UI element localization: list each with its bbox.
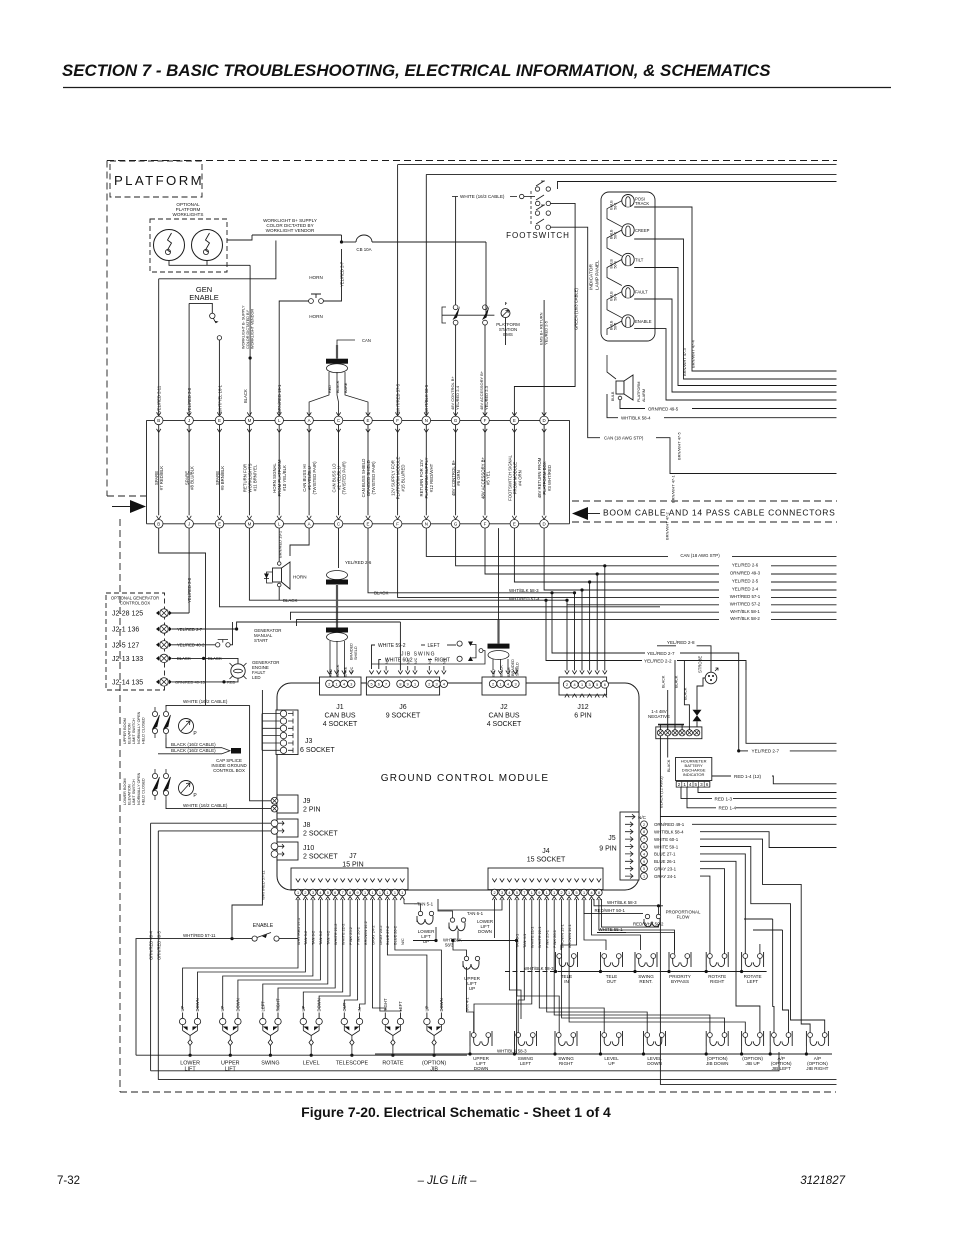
svg-text:CB 10A: CB 10A (356, 247, 371, 252)
wire J12-pin-597.2 (596, 574, 598, 671)
svg-text:BLACK: BLACK (374, 591, 388, 596)
svg-text:WORKLIGHT B- SUPPLY: WORKLIGHT B- SUPPLY (241, 305, 245, 349)
svg-text:#11 BRN/YEL: #11 BRN/YEL (252, 464, 257, 491)
wire ems-down (505, 318, 507, 345)
svg-text:ORN/RED 49-5: ORN/RED 49-5 (157, 930, 162, 960)
svg-text:J8: J8 (303, 822, 311, 829)
svg-text:5: 5 (596, 683, 598, 687)
svg-text:JIB RIGHT: JIB RIGHT (806, 1066, 828, 1071)
coil valve-LEVEL-DOWN (645, 1033, 650, 1038)
wire valve-OPTIONJIB DOWN-drop2 (705, 1046, 707, 1054)
svg-text:E: E (513, 418, 516, 423)
wire jib-left-feed2 (783, 930, 789, 1033)
svg-text:4: 4 (319, 891, 321, 895)
svg-text:UP: UP (469, 986, 475, 991)
wire trunk-col-9 (397, 425, 399, 516)
svg-text:#8 BLU/BLK: #8 BLU/BLK (190, 466, 195, 490)
svg-text:WHITE (16/3 CABLE): WHITE (16/3 CABLE) (460, 194, 505, 199)
wire bandC-bus (375, 1053, 832, 1055)
svg-text:YEL/RED 2-3: YEL/RED 2-3 (484, 385, 489, 410)
diode D1 (693, 710, 702, 716)
wire J7-fan-5 (263, 899, 328, 1010)
wire trunk-col-14 (543, 425, 545, 516)
switch generator-start-button (172, 644, 215, 646)
svg-text:1: 1 (568, 891, 570, 895)
wire lamp-feed-3 (607, 260, 622, 286)
svg-text:JIB UP: JIB UP (745, 1061, 759, 1066)
coil valve-AP-OPTION (808, 1033, 813, 1038)
svg-text:58/3: 58/3 (445, 943, 454, 948)
wire valve-TELEOUT-drop (600, 967, 602, 972)
svg-text:6: 6 (378, 682, 380, 686)
wire trunk-col-1 (158, 425, 160, 516)
wire valve-PRIORITYBYPASS-drop (668, 967, 670, 972)
svg-text:START: START (254, 638, 268, 643)
cable can-shield-j1 (338, 528, 340, 568)
wire col-E3-down (220, 528, 661, 607)
svg-text:1: 1 (531, 891, 533, 895)
svg-text:9 SOCKET: 9 SOCKET (386, 713, 421, 720)
wire j8-feed-1 (151, 822, 271, 824)
svg-text:(TWISTED PAIR): (TWISTED PAIR) (341, 461, 346, 495)
node generator-box (106, 593, 165, 690)
wire J4-fan-2 (438, 899, 502, 910)
wire footswitch-link (524, 196, 535, 198)
node boomcable-band-bottom (572, 521, 837, 523)
coil valve-SWING-RIGHT (556, 1033, 561, 1038)
diode horn-diode (267, 572, 273, 583)
wire bundle-wht-red-57-1 (719, 593, 771, 599)
svg-text:BRAIDED: BRAIDED (511, 659, 515, 676)
svg-text:ORN/RED 49-3: ORN/RED 49-3 (730, 571, 761, 576)
svg-text:J3: J3 (305, 738, 313, 745)
svg-text:BLACK: BLACK (684, 687, 688, 700)
svg-text:WHT/BLK 58-4: WHT/BLK 58-4 (654, 830, 684, 835)
wire black-cable-2 (158, 753, 222, 755)
svg-text:CAN (18 AWG STP): CAN (18 AWG STP) (604, 436, 644, 441)
svg-text:D: D (543, 418, 546, 423)
wire col9-tall (397, 165, 399, 416)
wire J4-fan-3 (509, 899, 521, 1019)
svg-text:6: 6 (604, 683, 606, 687)
wire redwht-50-2 (631, 924, 659, 927)
svg-text:9: 9 (357, 891, 359, 895)
svg-text:4 SOCKET: 4 SOCKET (487, 721, 522, 728)
wire ts3-up (674, 660, 676, 730)
svg-text:NORMALLY OPEN: NORMALLY OPEN (137, 772, 141, 805)
svg-text:TAN 6-1: TAN 6-1 (467, 911, 484, 916)
svg-text:9 PIN: 9 PIN (599, 846, 617, 853)
wire trunk-col-12 (484, 425, 486, 516)
wire col-N-down (426, 528, 836, 556)
wire header-rule (63, 87, 891, 89)
svg-text:A: A (308, 418, 311, 423)
switch 48v-accessory (483, 305, 488, 310)
svg-text:PLATFORM: PLATFORM (637, 382, 641, 402)
wire J7-fan-3 (223, 899, 313, 1010)
cable can-shield-j1-lower (326, 628, 348, 633)
svg-text:J2-14 135: J2-14 135 (112, 679, 143, 686)
node ems-switch (501, 309, 510, 318)
svg-text:GROUND CONTROL MODULE: GROUND CONTROL MODULE (381, 773, 550, 784)
svg-text:YEL/RED 2-8: YEL/RED 2-8 (187, 577, 192, 603)
wire strobe-black-down (684, 660, 689, 730)
svg-text:FAULT: FAULT (635, 290, 648, 295)
connector J12 (559, 677, 607, 695)
wire J6-white60-drop (379, 660, 381, 669)
svg-text:N/C: N/C (350, 666, 354, 673)
svg-text:15 PIN: 15 PIN (342, 862, 363, 869)
svg-text:WHITE 55-1: WHITE 55-1 (599, 927, 624, 932)
wire ts2-up (667, 690, 669, 730)
svg-text:RED: RED (329, 669, 333, 677)
wire top-line2 (426, 173, 836, 175)
svg-text:BULB: BULB (611, 391, 615, 401)
lamp worklight-1 (154, 230, 185, 261)
svg-text:YEL/RED 2-7: YEL/RED 2-7 (647, 651, 675, 656)
svg-text:BRN/RED 19-1: BRN/RED 19-1 (277, 530, 282, 558)
wire horn-cable-black (337, 372, 339, 416)
wire j2-28-wire (168, 612, 189, 614)
wire j2-bare (507, 659, 509, 670)
wire terminal-jumper (658, 724, 684, 726)
node connector-row2-13 (512, 516, 516, 520)
svg-text:J1: J1 (336, 704, 344, 711)
wire lamp-out-2 (634, 239, 836, 379)
node connector-row1-8 (366, 412, 370, 416)
svg-text:BRN/WHT 47-1: BRN/WHT 47-1 (671, 475, 676, 503)
svg-text:1: 1 (583, 891, 585, 895)
svg-text:EMS: EMS (503, 332, 513, 337)
svg-text:D: D (543, 521, 546, 526)
svg-text:9: 9 (643, 860, 645, 864)
wire col-B-down (159, 528, 206, 705)
svg-text:HORN: HORN (309, 314, 323, 319)
wire switch-bar (442, 314, 494, 316)
coil valve-ROTATE-RIGHT (708, 954, 713, 959)
svg-text:CONTROL BOX: CONTROL BOX (120, 601, 151, 606)
svg-text:LEFT: LEFT (747, 979, 758, 984)
gauge lower-boom-pressure (179, 781, 194, 796)
wire J7-fan-13 (387, 899, 427, 1010)
wire valve-SWINGRENT.-drop (634, 967, 636, 972)
svg-text:GREEN (16/3 CABLE): GREEN (16/3 CABLE) (573, 288, 578, 330)
wire col-F9-down (398, 528, 837, 597)
svg-text:N/C: N/C (638, 815, 647, 820)
svg-text:9: 9 (407, 682, 409, 686)
wire J3-pin-4 (262, 735, 280, 737)
wire valve-LEVELDOWN-drop2 (643, 1046, 645, 1054)
svg-text:RENT.: RENT. (639, 979, 652, 984)
svg-text:(TWISTED PAIR): (TWISTED PAIR) (312, 461, 317, 495)
svg-text:WHITE 59-1: WHITE 59-1 (654, 844, 679, 849)
wire valve-UPPERLIFT-drop2 (469, 1046, 471, 1054)
wire red-1-4-12 (712, 775, 731, 777)
svg-text:YEL/RED 2-2: YEL/RED 2-2 (644, 658, 672, 663)
svg-text:GRN/RED 40-13: GRN/RED 40-13 (175, 680, 206, 685)
svg-text:4: 4 (443, 682, 445, 686)
svg-text:UP: UP (608, 1061, 614, 1066)
svg-text:4: 4 (643, 852, 645, 856)
node connector-row2-14 (542, 516, 546, 520)
connector J5-pin-1 (625, 874, 633, 879)
wire red-1-4 (687, 787, 716, 808)
wire trunk-col-3 (219, 425, 221, 516)
node connector-row2-9 (395, 516, 399, 520)
wire trunk-col-8 (367, 425, 369, 516)
svg-text:RIGHT: RIGHT (435, 657, 451, 663)
svg-text:2: 2 (492, 682, 494, 686)
wire bundle-wht-red-57-2 (567, 604, 837, 606)
wire J12-pin-574.5 (574, 593, 576, 671)
svg-text:8: 8 (349, 891, 351, 895)
svg-text:2: 2 (304, 891, 306, 895)
svg-text:YEL/RED 40-2: YEL/RED 40-2 (177, 643, 205, 648)
svg-text:ENABLE: ENABLE (189, 293, 219, 302)
svg-text:F: F (396, 418, 399, 423)
svg-text:WORKLIGHTS: WORKLIGHTS (173, 212, 204, 217)
svg-text:F: F (484, 521, 487, 526)
node boomcable-band-top (572, 500, 837, 502)
node boomcable-arrow-right (572, 507, 588, 520)
svg-text:GRAY 23-1: GRAY 23-1 (654, 867, 677, 872)
svg-text:DOWN: DOWN (474, 1066, 489, 1071)
node connector-row1-7 (336, 412, 340, 416)
svg-text:1: 1 (401, 891, 403, 895)
wire jib-swing-out (471, 645, 477, 651)
node connector-row2-5 (277, 516, 281, 520)
wire lamp-feed-2 (607, 230, 622, 256)
wire black-12awg (660, 736, 836, 1084)
coil valve-OPTION-JIB UP (743, 1033, 748, 1038)
svg-text:RED/WHT 50-2: RED/WHT 50-2 (633, 922, 664, 927)
svg-text:3: 3 (514, 682, 516, 686)
svg-text:BLACK: BLACK (336, 380, 340, 393)
svg-text:2: 2 (428, 682, 430, 686)
wire col-E13-down (514, 528, 836, 582)
wire horn-bottom (278, 587, 280, 600)
svg-text:RED: RED (492, 669, 496, 677)
wire col-E8-down (368, 528, 575, 593)
svg-text:1: 1 (371, 891, 373, 895)
svg-text:M: M (248, 418, 252, 423)
svg-text:5: 5 (516, 891, 518, 895)
wire bottom-line2 (158, 1079, 836, 1081)
svg-text:NORMALLY OPEN: NORMALLY OPEN (137, 711, 141, 744)
svg-text:BRN/WHT 47-5: BRN/WHT 47-5 (677, 432, 682, 460)
wire j5-gray-24-1 (700, 876, 710, 954)
svg-text:5: 5 (576, 891, 578, 895)
svg-text:2 SOCKET: 2 SOCKET (303, 831, 338, 838)
svg-text:BYPASS: BYPASS (671, 979, 689, 984)
svg-text:1: 1 (546, 891, 548, 895)
svg-text:6 SOCKET: 6 SOCKET (300, 747, 335, 754)
svg-text:JIB DOWN: JIB DOWN (706, 1061, 728, 1066)
svg-text:YEL/RED 2-5: YEL/RED 2-5 (732, 579, 759, 584)
coil lower-lift-up (418, 911, 422, 915)
wire horn-cable-red (309, 372, 329, 416)
coil valve-TELE-OUT (602, 954, 607, 959)
svg-text:CAN BUS: CAN BUS (324, 713, 355, 720)
svg-text:WHT/RED 57-11: WHT/RED 57-11 (261, 870, 266, 900)
svg-text:J: J (188, 418, 190, 423)
switch lower-boom-limit-1 (152, 773, 157, 778)
svg-text:3: 3 (501, 891, 503, 895)
wire valve-APOPTION-drop2 (805, 1046, 807, 1054)
svg-text:1: 1 (394, 891, 396, 895)
svg-text:ELEVATION: ELEVATION (128, 784, 132, 805)
wire J3-pin-5 (262, 742, 280, 744)
wire yel-red-2-2 (546, 600, 642, 660)
svg-text:TRACK: TRACK (635, 201, 649, 206)
svg-text:OUT: OUT (607, 979, 617, 984)
wire trunk-col-4 (248, 425, 250, 516)
wire col-J-down (188, 528, 190, 613)
svg-text:YEL/RED 2-8: YEL/RED 2-8 (667, 640, 695, 645)
node platform-boundary-left-jog (107, 495, 146, 497)
svg-text:RED: RED (328, 385, 332, 393)
svg-text:#12 RED/WHT: #12 RED/WHT (429, 463, 434, 492)
node connector-row1-10 (424, 412, 428, 416)
svg-text:#6 GRN: #6 GRN (456, 470, 461, 486)
wire J7-fan-4 (238, 899, 321, 1010)
wire J3-pin-6 (262, 749, 280, 751)
lamp indicator-enable (622, 315, 634, 327)
svg-text:3: 3 (436, 682, 438, 686)
svg-text:15 SOCKET: 15 SOCKET (527, 857, 566, 864)
svg-text:IN: IN (564, 979, 569, 984)
node connector-row1-2 (187, 412, 191, 416)
wire j1-red (329, 641, 331, 680)
svg-text:SECTION 7 - BASIC TROUBLESHOOT: SECTION 7 - BASIC TROUBLESHOOTING, ELECT… (62, 61, 771, 80)
wire lamp-feed-1 (607, 201, 622, 227)
svg-text:1: 1 (553, 891, 555, 895)
switch horn-button (309, 299, 314, 304)
wire yel-red-2-7-line (738, 662, 740, 751)
coil valve-AP-OPTION (772, 1033, 777, 1038)
connector J5-pin-9 (625, 859, 633, 864)
wire col-M-down (249, 528, 567, 600)
wire j5-white-60-1 (700, 839, 810, 1033)
svg-text:1: 1 (386, 891, 388, 895)
svg-text:N: N (425, 418, 428, 423)
svg-text:LEFT: LEFT (520, 1061, 531, 1066)
svg-text:GRAY 24-1: GRAY 24-1 (654, 874, 677, 879)
wire J7-fan-1 (183, 899, 298, 1010)
svg-text:3: 3 (700, 782, 703, 787)
svg-text:CAN: CAN (362, 338, 371, 343)
wire col11 (455, 325, 457, 416)
node trunk-frame (147, 419, 570, 421)
svg-text:N/C: N/C (428, 657, 432, 664)
svg-text:#9 BRN/BLK: #9 BRN/BLK (220, 466, 225, 490)
wire strobe-wire (697, 678, 705, 700)
wire lamp-out-3 (634, 268, 836, 386)
node boomcable-arrow-left (130, 500, 146, 513)
wire orn-red-49-5-vert (157, 831, 159, 1080)
wire J7-fan-7 (303, 899, 342, 1010)
wire valve-OPTIONJIB UP-drop2 (741, 1046, 743, 1054)
svg-text:J10: J10 (303, 845, 314, 852)
wire gen-enable-down (218, 340, 220, 416)
svg-text:YEL/RED 2-7: YEL/RED 2-7 (339, 261, 344, 287)
svg-text:YEL/RED 2-7: YEL/RED 2-7 (752, 749, 780, 754)
wire j5-gray-23-1 (700, 869, 725, 954)
node J6-nc-5 (414, 666, 416, 671)
svg-text:8: 8 (399, 682, 401, 686)
svg-text:N: N (425, 521, 428, 526)
svg-text:WHITE (16/2 CABLE): WHITE (16/2 CABLE) (183, 803, 228, 808)
connector J5-pin-5 (625, 866, 633, 871)
svg-text:INDICATOR: INDICATOR (589, 264, 595, 290)
svg-text:J7: J7 (349, 853, 357, 860)
coil valve-TELE-IN (557, 954, 562, 959)
svg-text:#7 RED/BLK: #7 RED/BLK (159, 466, 164, 490)
wire whtblk-58-3a (413, 940, 436, 942)
wire valve-SWINGLEFT-drop2 (514, 1046, 516, 1054)
wire J4-fan-5 (518, 899, 524, 1033)
node connector-row2-4 (247, 516, 251, 520)
svg-text:9: 9 (538, 891, 540, 895)
wire trunk-col-2 (188, 425, 190, 516)
wire lamp-out-1 (634, 207, 836, 371)
wire j5-white-59-1 (700, 847, 825, 1033)
wire J7-fan-8 (319, 899, 350, 1010)
wire J3-feed (261, 714, 263, 751)
wire valve-ROTATELEFT-drop (741, 967, 743, 972)
svg-text:TAN 4-1: TAN 4-1 (465, 997, 470, 1012)
svg-text:1: 1 (683, 782, 686, 787)
svg-text:BLACK: BLACK (674, 675, 678, 688)
svg-text:YEL/RED 2-11: YEL/RED 2-11 (157, 385, 162, 413)
svg-text:J2-5 127: J2-5 127 (112, 642, 139, 649)
wire line-743 (746, 662, 837, 743)
switch upper-boom-limit-2 (163, 711, 168, 716)
wire yel-red-2-8 (697, 646, 711, 672)
wire J12-pin-582 (581, 590, 583, 671)
wire bundle-wht-blk-58-1 (291, 612, 837, 620)
svg-text:6: 6 (706, 782, 709, 787)
lamp indicator-creep (622, 224, 634, 236)
svg-text:LEVEL: LEVEL (303, 1061, 320, 1067)
wire bandB-bus (505, 971, 558, 973)
svg-text:2 SOCKET: 2 SOCKET (303, 854, 338, 861)
svg-text:RED 1-3: RED 1-3 (715, 796, 733, 801)
switch lower-boom-limit-2 (163, 773, 168, 778)
svg-text:HELD CLOSED: HELD CLOSED (141, 717, 145, 744)
svg-text:7: 7 (342, 891, 344, 895)
wire white-55-1 (597, 932, 626, 934)
node connector-row1-4 (247, 412, 251, 416)
svg-text:BARE: BARE (507, 667, 511, 677)
wire J7-fan-2 (198, 899, 306, 1010)
node connector-row2-7 (336, 516, 340, 520)
svg-text:A: A (308, 521, 311, 526)
connector J9 (277, 795, 298, 813)
svg-text:BLACK: BLACK (336, 664, 340, 677)
svg-text:UP: UP (423, 939, 429, 944)
svg-text:PLATFORM: PLATFORM (114, 173, 204, 188)
wire can-line (551, 227, 601, 438)
node connector-row2-3 (217, 516, 221, 520)
svg-text:1: 1 (297, 891, 299, 895)
wire col10-tall (425, 174, 427, 416)
lamp indicator-fault (622, 286, 634, 298)
wire j2-13-wire (172, 657, 232, 659)
svg-text:TELESCOPE: TELESCOPE (336, 1061, 369, 1067)
wire col-D-down (544, 528, 836, 590)
svg-text:WHT/BLK 58-1: WHT/BLK 58-1 (730, 609, 760, 614)
